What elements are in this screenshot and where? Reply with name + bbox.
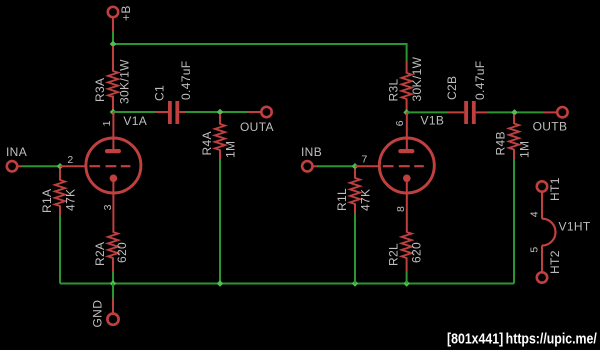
terminal HT2 — [537, 245, 547, 282]
svg-text:2: 2 — [67, 154, 73, 166]
wire R1L to ground bus — [354, 214, 356, 284]
svg-text:R1A: R1A — [40, 189, 54, 213]
resistor R4A 1M — [215, 114, 225, 161]
svg-text:1M: 1M — [518, 141, 532, 158]
svg-text:7: 7 — [362, 154, 368, 166]
wire R4A to ground bus — [219, 160, 221, 284]
svg-text:0.47uF: 0.47uF — [473, 61, 487, 100]
terminal OUTB — [543, 107, 568, 117]
wire top rail from +B node to V1B plate column — [113, 31, 407, 61]
svg-text:GND: GND — [91, 300, 105, 328]
svg-text:OUTB: OUTB — [533, 119, 568, 133]
svg-text:+B: +B — [119, 5, 133, 21]
capacitor C2B 0.47uF — [448, 101, 487, 124]
svg-text:OUTA: OUTA — [240, 120, 274, 134]
junction R1L/bus — [352, 280, 359, 287]
resistor R3A 30K/1W — [108, 46, 118, 112]
svg-text:HT2: HT2 — [548, 250, 562, 274]
wire R4B to ground bus — [513, 160, 515, 284]
svg-text:C2B: C2B — [445, 76, 459, 100]
svg-text:30K/1W: 30K/1W — [118, 59, 132, 104]
junction OUTA node — [217, 109, 224, 116]
terminal INB — [302, 161, 318, 171]
wire grid node to V1A grid pin — [60, 165, 87, 167]
svg-text:47K: 47K — [359, 189, 373, 211]
resistor R4B 1M — [509, 114, 519, 160]
capacitor C1 0.47uF — [156, 101, 187, 124]
heater V1HT — [542, 219, 556, 246]
svg-text:INB: INB — [301, 145, 322, 159]
terminal OUTA — [248, 107, 272, 117]
watermark upic.me — [447, 330, 597, 346]
junction grid node V1A — [57, 163, 64, 170]
junction R2L/bus — [403, 280, 410, 287]
svg-text:6: 6 — [394, 120, 406, 126]
resistor R3L 30K/1W — [402, 61, 412, 112]
wire C1 to OUTA node — [186, 111, 248, 113]
svg-text:HT1: HT1 — [548, 177, 562, 201]
junction R2A/bus — [110, 280, 117, 287]
svg-text:5: 5 — [529, 246, 541, 252]
terminal GND — [107, 284, 118, 325]
svg-text:[801x441] https://upic.me/: [801x441] https://upic.me/ — [447, 330, 597, 346]
svg-text:R3L: R3L — [387, 78, 401, 101]
junction at +B / top rail — [110, 41, 117, 48]
wire node B to C2B — [407, 111, 448, 113]
wire R1A to ground bus — [59, 216, 61, 284]
svg-text:30K/1W: 30K/1W — [410, 56, 424, 101]
wire grid node to V1B grid pin — [355, 165, 381, 167]
svg-text:47K: 47K — [64, 189, 78, 211]
wire R2A to ground bus — [112, 272, 114, 284]
junction R4A/bus — [217, 280, 224, 287]
wire R2L to ground bus — [406, 272, 408, 284]
svg-text:R4B: R4B — [494, 131, 508, 155]
wire C2B to OUTB node — [487, 111, 543, 113]
terminal +B — [108, 7, 118, 32]
svg-text:1: 1 — [101, 120, 113, 126]
node B: plate of V1B junction — [403, 109, 410, 116]
wire INB to grid node — [317, 165, 355, 167]
terminal HT1 — [537, 181, 547, 219]
tube triode V1B — [379, 112, 434, 232]
svg-text:4: 4 — [529, 211, 541, 217]
resistor R2L 620 — [402, 232, 412, 273]
wire node A to C1 — [113, 111, 156, 113]
svg-text:R2L: R2L — [387, 243, 401, 266]
svg-text:R4A: R4A — [200, 131, 214, 155]
terminal INA — [7, 161, 22, 171]
ground bus wire — [60, 283, 514, 285]
svg-text:3: 3 — [102, 204, 114, 210]
wire INA to grid node — [22, 165, 61, 167]
svg-text:R2A: R2A — [93, 242, 107, 266]
svg-text:V1B: V1B — [421, 114, 445, 128]
node A: plate of V1A junction — [110, 109, 117, 116]
resistor R1L 47K — [350, 169, 360, 215]
svg-text:R3A: R3A — [93, 78, 107, 102]
junction OUTB node — [511, 109, 518, 116]
svg-text:1M: 1M — [224, 141, 238, 158]
junction grid node V1B — [352, 163, 359, 170]
svg-text:0.47uF: 0.47uF — [179, 61, 193, 100]
svg-text:8: 8 — [395, 206, 407, 212]
resistor R1A 47K — [55, 169, 65, 217]
svg-text:620: 620 — [410, 242, 424, 263]
svg-text:620: 620 — [115, 242, 129, 263]
svg-text:V1HT: V1HT — [559, 220, 591, 234]
svg-text:V1A: V1A — [123, 114, 147, 128]
resistor R2A 620 — [108, 232, 118, 273]
svg-text:INA: INA — [6, 145, 27, 159]
svg-text:C1: C1 — [153, 85, 167, 101]
svg-text:R1L: R1L — [335, 188, 349, 211]
tube triode V1A — [86, 112, 141, 233]
